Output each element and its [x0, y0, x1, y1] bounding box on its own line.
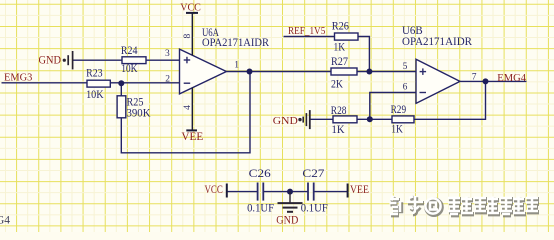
svg-text:R29: R29: [391, 104, 407, 116]
junction node decoupling center: [287, 189, 293, 195]
op-amp U6B: [416, 59, 460, 103]
wire R26 right riser to node: [358, 37, 369, 72]
svg-text:8: 8: [183, 33, 193, 38]
resistor R24: [121, 45, 146, 75]
svg-text:0.1UF: 0.1UF: [247, 203, 274, 215]
svg-text:R25: R25: [127, 96, 144, 108]
junction node output U6A: [247, 69, 253, 75]
svg-text:7: 7: [472, 73, 477, 83]
svg-text:EMG4: EMG4: [497, 73, 526, 84]
wire EMG3 to R23: [2, 82, 88, 84]
svg-text:R27: R27: [331, 56, 348, 68]
svg-text:2K: 2K: [331, 78, 343, 90]
ground GND left of R28: [273, 110, 310, 129]
svg-text:OPA2171AIDR: OPA2171AIDR: [402, 36, 473, 48]
power port VCC top: [180, 2, 201, 14]
capacitor C27: [301, 168, 328, 215]
capacitor C26: [247, 168, 274, 215]
svg-text:0.1UF: 0.1UF: [301, 203, 328, 215]
svg-text:1K: 1K: [332, 124, 345, 136]
svg-text:REF_1V5: REF_1V5: [288, 26, 325, 37]
resistor R27: [331, 56, 357, 91]
wire REF_1V5 to R26: [284, 36, 335, 38]
svg-text:3: 3: [165, 49, 170, 59]
ground GND bottom: [276, 192, 302, 227]
wire node to U6B pin6: [370, 93, 416, 120]
svg-text:GND: GND: [273, 115, 298, 127]
svg-text:10K: 10K: [86, 89, 104, 101]
op-amp U6A: [180, 49, 227, 94]
resistor R29: [391, 104, 414, 136]
wire C27 to VEE: [314, 191, 348, 193]
svg-text:C26: C26: [249, 168, 272, 180]
wire R28 to R29: [357, 118, 392, 120]
svg-text:1: 1: [234, 60, 239, 70]
svg-text:2: 2: [165, 74, 170, 84]
svg-text:VEE: VEE: [350, 184, 369, 196]
junction node output U6B: [483, 78, 489, 84]
wire VCC to C26: [227, 191, 257, 193]
wire node to R25 top: [120, 83, 122, 96]
U6A power pin stems: [191, 13, 193, 130]
svg-text:G4: G4: [0, 214, 10, 226]
junction node R28/R29: [367, 116, 373, 122]
wire R27 to U6B pin5: [357, 71, 416, 73]
junction node R26/R27: [366, 69, 372, 75]
wire R23 to U6A pin2: [110, 82, 179, 84]
power port VCC bottom: [205, 184, 227, 198]
svg-text:VEE: VEE: [181, 131, 203, 143]
svg-text:1K: 1K: [391, 124, 403, 136]
svg-text:GND: GND: [276, 215, 298, 227]
wire R24 to U6A pin3: [146, 59, 180, 61]
svg-text:VCC: VCC: [205, 184, 223, 196]
svg-text:EMG3: EMG3: [4, 71, 32, 83]
svg-text:390K: 390K: [127, 108, 151, 120]
svg-text:R26: R26: [332, 21, 350, 33]
svg-text:R28: R28: [331, 105, 347, 117]
power port VEE below U6A: [181, 130, 203, 143]
resistor R28: [331, 105, 357, 136]
wire R29 feedback riser to output: [414, 81, 486, 119]
resistor R23: [86, 67, 110, 100]
wire U6B output to EMG4: [460, 80, 527, 82]
svg-text:GND: GND: [39, 55, 62, 67]
svg-text:6: 6: [403, 82, 408, 92]
ground GND left of R24: [39, 51, 73, 69]
resistor R25: [117, 96, 150, 120]
svg-text:R24: R24: [121, 45, 138, 57]
svg-text:R23: R23: [86, 67, 103, 79]
wire C26 to C27: [263, 191, 308, 193]
wire GND to R24: [73, 59, 122, 61]
wire R25 bottom feedback loop: [121, 72, 250, 153]
junction node R23/R25: [118, 80, 124, 86]
watermark zhihu: [390, 196, 540, 216]
svg-text:OPA2171AIDR: OPA2171AIDR: [202, 37, 270, 49]
svg-text:VCC: VCC: [180, 2, 201, 14]
wire GND to R28: [310, 118, 333, 120]
svg-text:U6B: U6B: [402, 25, 423, 37]
svg-text:4: 4: [183, 105, 193, 110]
wire U6A output to R27: [226, 71, 331, 73]
power port VEE bottom: [348, 184, 369, 198]
resistor R26: [332, 21, 358, 54]
svg-text:5: 5: [403, 62, 408, 72]
svg-text:10K: 10K: [121, 63, 137, 75]
svg-text:1K: 1K: [334, 41, 346, 53]
svg-text:C27: C27: [302, 168, 325, 180]
